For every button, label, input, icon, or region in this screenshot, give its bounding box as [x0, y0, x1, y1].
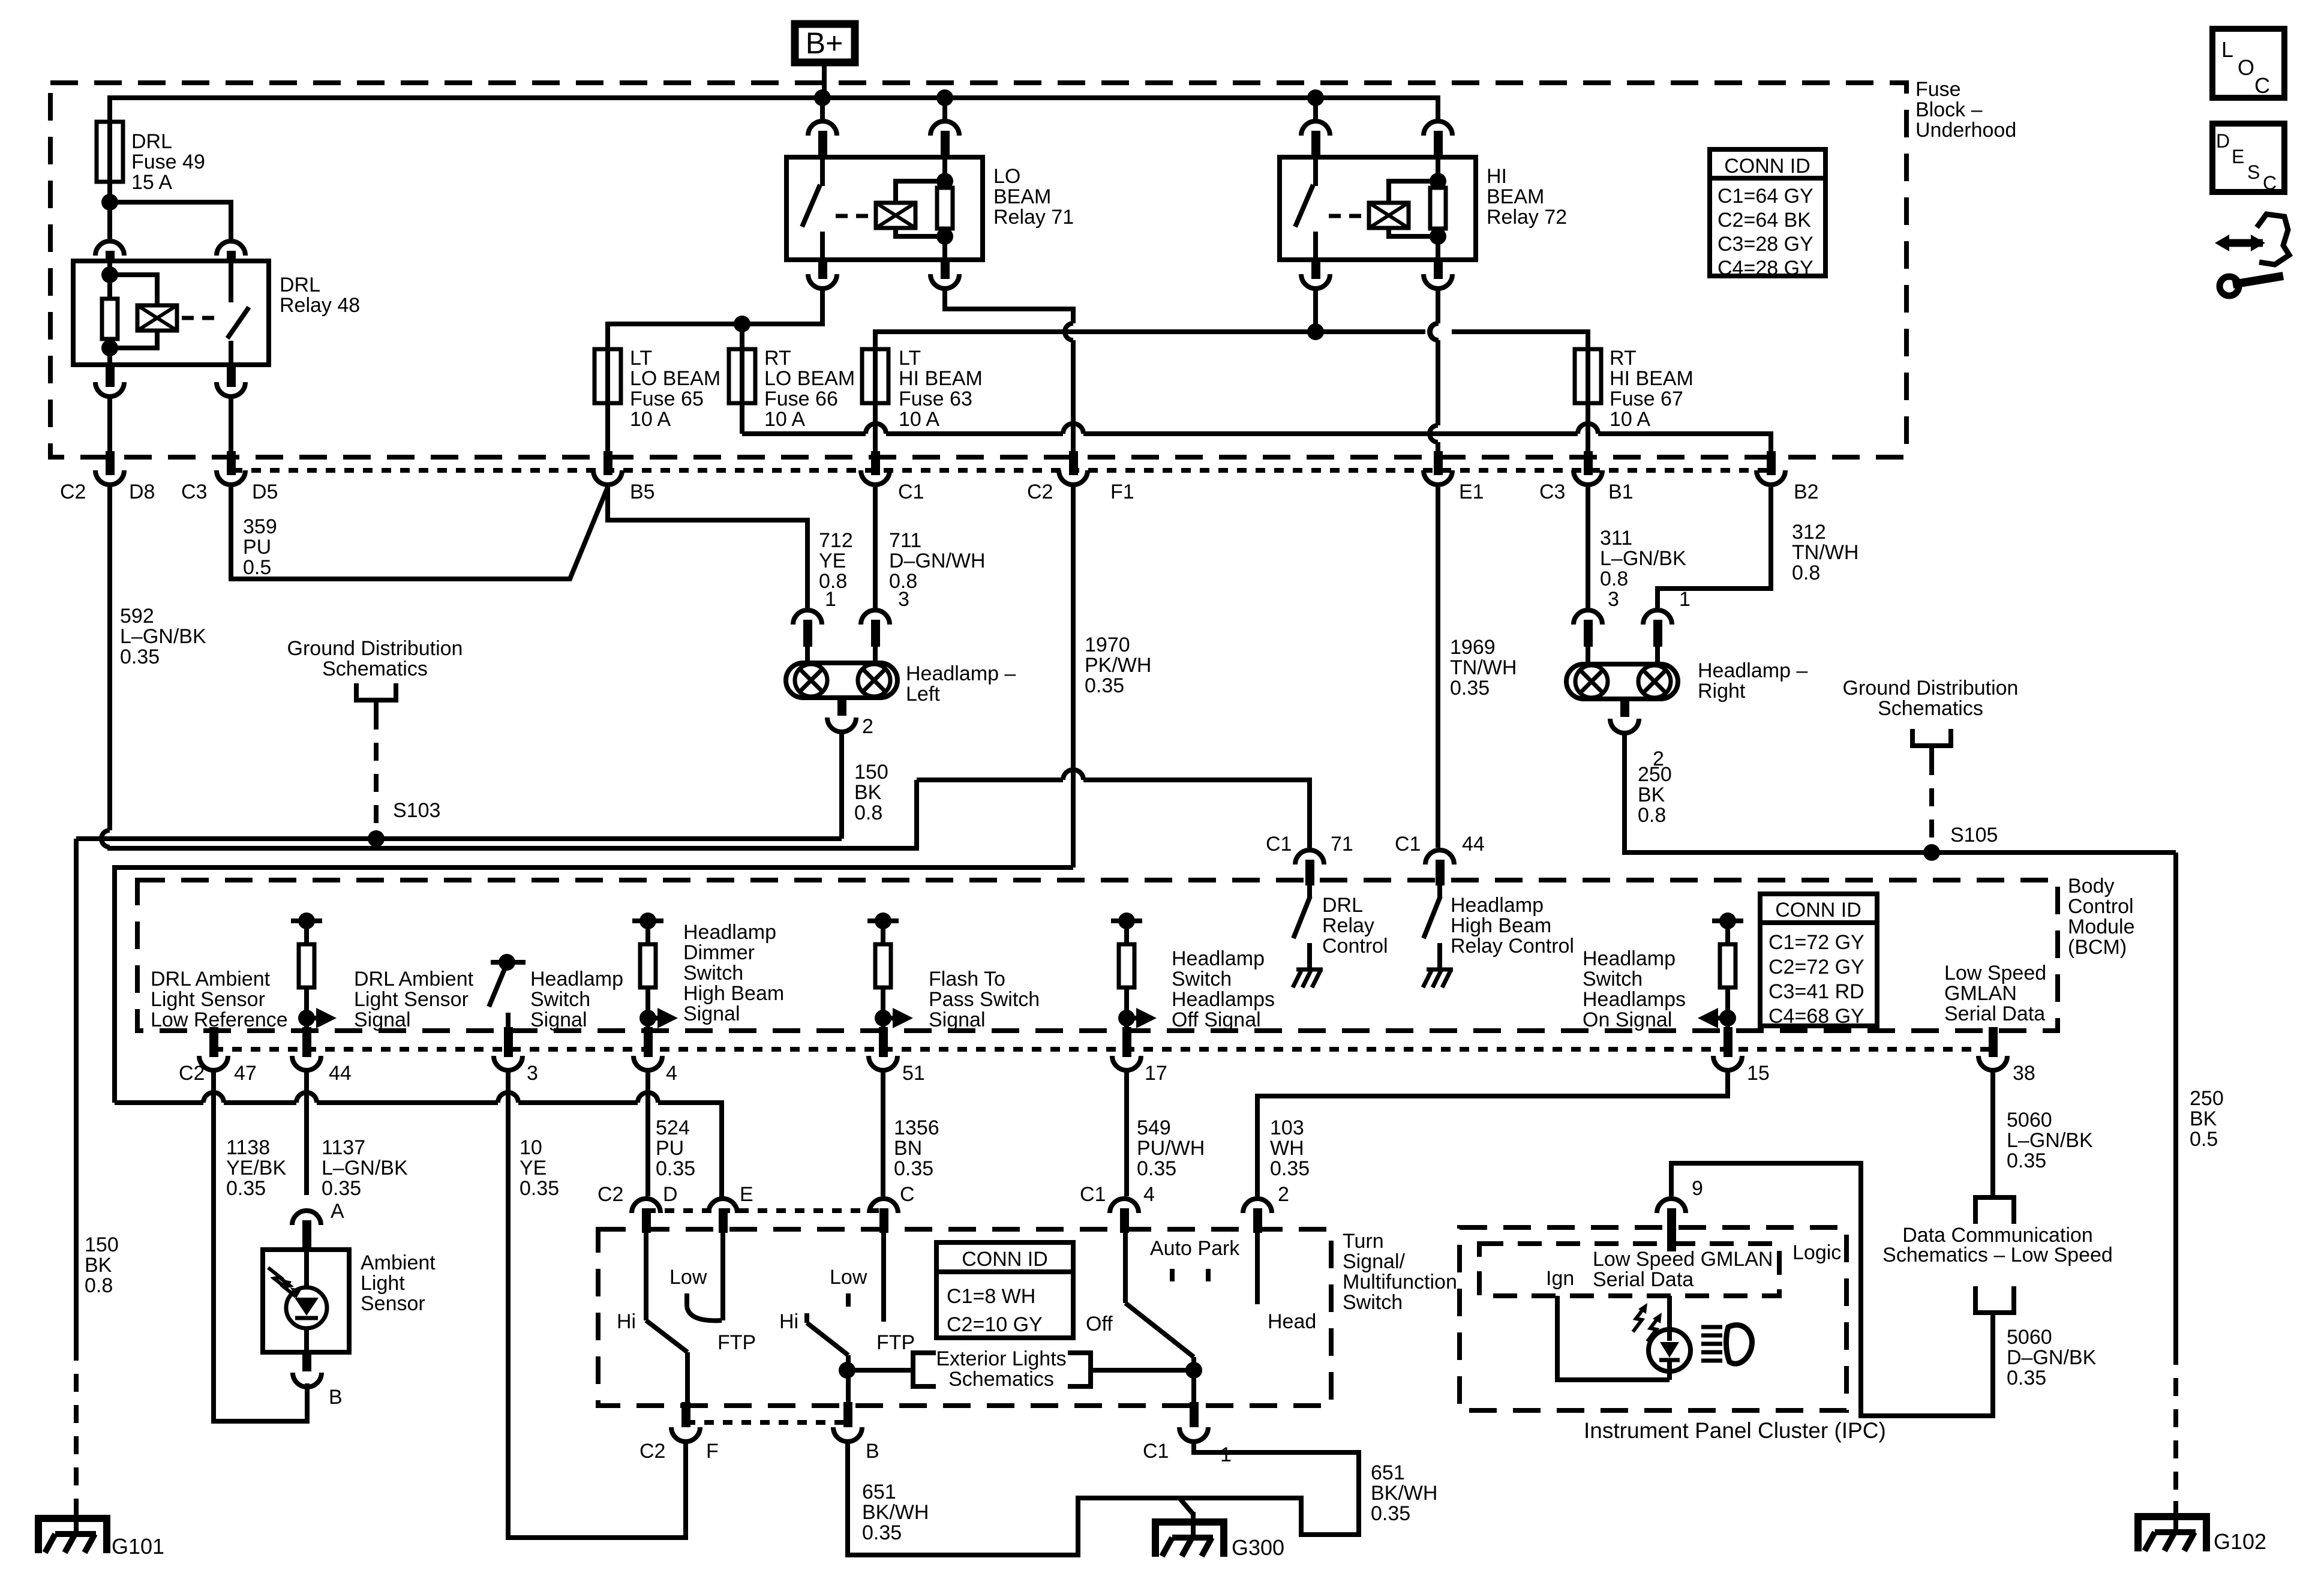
svg-text:DRL: DRL [1322, 894, 1363, 917]
svg-text:Instrument Panel Cluster (IPC): Instrument Panel Cluster (IPC) [1584, 1418, 1886, 1443]
wire fuse63 top to relay72 switch to fuse67 [875, 332, 1425, 349]
svg-text:C2=72 GY: C2=72 GY [1768, 956, 1864, 978]
BCM headlamp switch signal switch pin3 [491, 960, 526, 965]
IPC Ign wire [1557, 1296, 1670, 1380]
svg-text:1138: 1138 [226, 1136, 270, 1159]
svg-text:5060: 5060 [2007, 1109, 2052, 1131]
wire 1138 YE/BK BCM47 to sensor B [214, 1070, 307, 1421]
connector relay48 bottom left [95, 382, 124, 397]
icon component view arrow wrench [2215, 235, 2229, 251]
svg-text:C2: C2 [639, 1440, 665, 1463]
connector relay48 pin top left [95, 241, 124, 256]
svg-text:Relay Control: Relay Control [1451, 935, 1574, 957]
svg-text:D5: D5 [252, 481, 278, 503]
svg-text:Headlamps: Headlamps [1172, 988, 1275, 1011]
svg-text:BK/WH: BK/WH [1371, 1482, 1437, 1505]
svg-text:Headlamp: Headlamp [1451, 894, 1544, 917]
BCM pullup pin15 headlamp switch headlamps on signal [1712, 918, 1743, 923]
BCM dashed box [137, 880, 2058, 1031]
svg-text:CONN ID: CONN ID [1775, 899, 1861, 921]
wire relay71 coil to F1 [945, 292, 1073, 323]
svg-text:Signal: Signal [683, 1002, 740, 1025]
svg-text:HI: HI [1487, 165, 1507, 188]
svg-text:C: C [2254, 73, 2270, 98]
svg-text:GMLAN: GMLAN [1944, 982, 2017, 1005]
BCM DRL relay control switch [1307, 885, 1312, 897]
svg-text:BK/WH: BK/WH [862, 1501, 929, 1524]
svg-text:Serial Data: Serial Data [1944, 1002, 2045, 1025]
svg-text:Light: Light [361, 1272, 405, 1295]
fuse block bottom connector dotted line [233, 468, 1774, 473]
svg-text:524: 524 [656, 1116, 690, 1139]
svg-text:712: 712 [819, 529, 853, 552]
relay72 switch [1313, 157, 1318, 186]
svg-text:Fuse 65: Fuse 65 [630, 388, 704, 410]
svg-text:B: B [866, 1440, 879, 1463]
svg-text:Turn: Turn [1343, 1230, 1384, 1253]
headlamp right [1574, 610, 1602, 625]
svg-text:Hi: Hi [617, 1310, 636, 1333]
wire 150 BK to G101 [74, 839, 79, 1343]
svg-text:17: 17 [1145, 1062, 1167, 1085]
fuse 67 RT HI BEAM [1575, 349, 1601, 403]
svg-text:Logic: Logic [1792, 1241, 1841, 1264]
svg-text:E1: E1 [1459, 481, 1484, 503]
svg-text:YE: YE [819, 550, 846, 572]
svg-text:10: 10 [520, 1136, 542, 1159]
svg-text:592: 592 [120, 605, 154, 628]
wire 1356 BN BCM51 to multifunction C [881, 1070, 885, 1196]
connector relay71 bottom pins [808, 274, 837, 289]
wire 524 PU BCM4 to multifunction D [645, 1070, 650, 1196]
svg-text:0.35: 0.35 [1450, 677, 1490, 700]
headlamp left [793, 610, 822, 625]
wire 549 PU/WH BCM17 to multifunction C1-4 [1124, 1070, 1129, 1196]
svg-text:PU: PU [243, 536, 271, 559]
svg-text:Headlamp: Headlamp [530, 968, 623, 990]
svg-text:312: 312 [1792, 521, 1826, 544]
svg-text:(BCM): (BCM) [2068, 936, 2127, 959]
svg-text:C3=41 RD: C3=41 RD [1768, 980, 1864, 1003]
svg-text:359: 359 [243, 515, 277, 538]
wire fuse63 to C1 [873, 403, 878, 451]
svg-text:S105: S105 [1950, 824, 1998, 846]
svg-text:0.35: 0.35 [1270, 1157, 1310, 1180]
ground G300 [1179, 1498, 1193, 1514]
svg-text:15: 15 [1747, 1062, 1770, 1085]
relay72 resistor [1436, 157, 1440, 188]
wire 250 BK to G102 [2173, 852, 2178, 1347]
wire 1969 TN/WH E1 to BCM 44 [1436, 487, 1440, 848]
svg-text:Low Speed: Low Speed [1944, 962, 2046, 984]
svg-text:2: 2 [1278, 1183, 1289, 1206]
relay48 switch [229, 261, 233, 302]
svg-text:Head: Head [1268, 1310, 1316, 1333]
ground G101 [38, 1518, 107, 1553]
svg-text:CONN ID: CONN ID [1724, 155, 1810, 178]
wire 103 WH BCM15 to multifunction pin2 [1257, 1070, 1728, 1196]
IPC logic inner dashed box [1479, 1244, 1779, 1296]
svg-text:B: B [329, 1386, 343, 1409]
svg-text:BK: BK [2190, 1107, 2217, 1130]
relay71 switch [820, 157, 825, 186]
svg-text:250: 250 [2190, 1087, 2224, 1110]
svg-text:B5: B5 [630, 481, 655, 503]
wire fuse66 top [740, 324, 744, 349]
svg-text:Relay 48: Relay 48 [280, 294, 360, 317]
svg-text:311: 311 [1600, 527, 1632, 550]
svg-text:L–GN/BK: L–GN/BK [120, 625, 206, 648]
svg-text:Switch: Switch [1343, 1291, 1403, 1314]
svg-text:C4=68 GY: C4=68 GY [1768, 1005, 1864, 1028]
svg-text:38: 38 [2013, 1062, 2035, 1085]
svg-text:Ground Distribution: Ground Distribution [287, 637, 463, 660]
svg-text:Fuse 67: Fuse 67 [1610, 388, 1683, 410]
multifunction bottom connectors [686, 1420, 848, 1425]
connector B5 [593, 470, 622, 485]
connector BCM C1-71 [1295, 850, 1324, 864]
wire 1137 L-GN/BK BCM44 to sensor A [304, 1070, 309, 1195]
svg-text:Right: Right [1698, 680, 1746, 703]
svg-text:Headlamp: Headlamp [1583, 947, 1676, 970]
wire relay71 switch to fuses 65 66 [608, 292, 822, 349]
svg-text:Fuse: Fuse [1915, 78, 1961, 101]
svg-text:D8: D8 [129, 481, 155, 503]
relay72 coil [1369, 203, 1409, 228]
CONN ID table fuse block [1710, 149, 1825, 276]
svg-text:Switch: Switch [683, 962, 743, 984]
svg-text:C: C [2263, 172, 2277, 194]
svg-text:C1: C1 [1080, 1183, 1106, 1206]
svg-text:G300: G300 [1232, 1535, 1284, 1560]
svg-text:YE: YE [520, 1157, 547, 1179]
svg-text:Relay 71: Relay 71 [993, 206, 1074, 229]
svg-text:Schematics: Schematics [948, 1368, 1054, 1391]
IPC headlamp beam icon [1701, 1325, 1722, 1329]
svg-text:1969: 1969 [1450, 636, 1496, 659]
svg-text:44: 44 [329, 1062, 352, 1085]
svg-text:PU/WH: PU/WH [1137, 1137, 1205, 1160]
svg-text:C4=28 GY: C4=28 GY [1718, 257, 1813, 280]
wire 150 BK headlamp left to S103 bus [839, 732, 844, 839]
wire 651 BK/WH C1-1 to G300 [1179, 1442, 1359, 1535]
svg-text:Schematics: Schematics [1878, 697, 1983, 720]
ambient light sensor box [263, 1250, 349, 1352]
CONN ID table multifunction [936, 1242, 1073, 1338]
fuse 49 DRL 15A [97, 122, 123, 182]
junction B+ bus [814, 89, 831, 106]
svg-text:Low Reference: Low Reference [151, 1008, 288, 1031]
svg-text:RT: RT [764, 347, 791, 370]
svg-text:C3: C3 [181, 481, 207, 503]
svg-text:651: 651 [1371, 1461, 1405, 1484]
svg-text:S: S [2247, 161, 2260, 183]
IPC dashed box [1460, 1227, 1846, 1410]
svg-text:Headlamp: Headlamp [1172, 947, 1265, 970]
svg-text:Switch: Switch [530, 988, 590, 1011]
svg-text:4: 4 [666, 1062, 677, 1085]
wire 5060 L-GN/BK BCM38 to data comm [1990, 1070, 1995, 1197]
svg-text:0.35: 0.35 [1137, 1157, 1176, 1180]
svg-text:High Beam: High Beam [683, 982, 784, 1005]
sensor light arrows [268, 1268, 286, 1288]
svg-text:0.35: 0.35 [1371, 1502, 1410, 1525]
svg-text:Flash To: Flash To [929, 968, 1005, 990]
svg-text:9: 9 [1692, 1177, 1703, 1200]
fuse 65 LT LO BEAM [594, 349, 621, 403]
svg-text:47: 47 [234, 1062, 257, 1085]
svg-text:WH: WH [1270, 1137, 1304, 1160]
svg-text:C3: C3 [1539, 481, 1565, 503]
svg-text:10 A: 10 A [899, 408, 939, 431]
svg-text:Auto Park: Auto Park [1150, 1237, 1240, 1260]
svg-text:PU: PU [656, 1137, 684, 1160]
svg-text:FTP: FTP [876, 1331, 915, 1354]
svg-text:HI BEAM: HI BEAM [1610, 367, 1694, 390]
svg-text:Headlamps: Headlamps [1583, 988, 1686, 1011]
wire 250 BK headlamp right to S105 [1625, 733, 2176, 852]
svg-text:YE/BK: YE/BK [226, 1157, 286, 1179]
wire fuse49 to relay48 [107, 182, 112, 239]
svg-text:Ambient: Ambient [361, 1251, 436, 1274]
svg-text:10 A: 10 A [630, 408, 671, 431]
svg-text:10 A: 10 A [764, 408, 805, 431]
svg-text:250: 250 [1638, 763, 1672, 786]
wire 712 YE B5 to headlamp left pin1 [608, 487, 807, 608]
connector B2 [1756, 470, 1785, 485]
connector relay71 top pins [808, 121, 837, 136]
svg-text:E: E [2232, 146, 2244, 167]
svg-text:DRL: DRL [280, 274, 320, 296]
svg-text:Hi: Hi [779, 1310, 798, 1333]
BCM bottom connector dotted line [214, 1047, 1995, 1052]
svg-text:BEAM: BEAM [993, 185, 1051, 208]
svg-text:Switch: Switch [1583, 968, 1643, 990]
BCM pullup pin17 headlamp switch headlamps off signal [1111, 918, 1142, 923]
icon DESC box [2212, 124, 2284, 192]
svg-text:C1: C1 [1266, 833, 1292, 855]
BCM pullup pin44 DRL ambient light sensor signal [291, 918, 322, 923]
connector F1 [1059, 470, 1088, 485]
svg-text:51: 51 [902, 1062, 925, 1085]
svg-text:RT: RT [1610, 347, 1637, 370]
svg-text:BN: BN [894, 1137, 922, 1160]
svg-text:Fuse 49: Fuse 49 [131, 151, 205, 173]
svg-text:HI BEAM: HI BEAM [899, 367, 983, 390]
svg-text:L–GN/BK: L–GN/BK [322, 1157, 408, 1179]
svg-text:Relay: Relay [1322, 914, 1374, 937]
svg-text:Schematics – Low Speed: Schematics – Low Speed [1882, 1244, 2113, 1266]
svg-text:0.5: 0.5 [2190, 1128, 2218, 1151]
svg-text:0.35: 0.35 [226, 1177, 266, 1200]
svg-text:TN/WH: TN/WH [1792, 541, 1858, 564]
BCM headlamp high beam relay control switch [1437, 885, 1442, 897]
connector sensor pin B [302, 1352, 311, 1371]
svg-text:Off: Off [1086, 1313, 1113, 1335]
svg-text:C2=64 BK: C2=64 BK [1718, 209, 1811, 232]
svg-text:FTP: FTP [717, 1331, 756, 1354]
svg-text:Signal/: Signal/ [1343, 1250, 1406, 1273]
svg-text:Low: Low [669, 1266, 707, 1289]
svg-text:71: 71 [1331, 833, 1353, 855]
svg-text:1137: 1137 [322, 1136, 365, 1159]
svg-text:Relay 72: Relay 72 [1487, 206, 1567, 229]
connector relay72 bottom pins [1301, 274, 1330, 289]
svg-text:L–GN/BK: L–GN/BK [1600, 547, 1686, 570]
svg-text:BK: BK [1638, 784, 1665, 806]
wire fuse66 to B2 [740, 403, 744, 434]
svg-text:0.35: 0.35 [322, 1177, 361, 1200]
svg-text:Fuse 63: Fuse 63 [899, 388, 972, 410]
svg-text:G102: G102 [2214, 1529, 2266, 1554]
wire B+ feed [822, 62, 827, 98]
svg-text:C2: C2 [597, 1183, 623, 1206]
headlamp right pin2 connector [1620, 699, 1629, 717]
svg-text:0.5: 0.5 [243, 556, 271, 579]
connector E1 [1424, 470, 1452, 485]
svg-text:C1=64 GY: C1=64 GY [1718, 185, 1813, 208]
svg-text:651: 651 [862, 1481, 896, 1503]
fuse block underhood dashed box [50, 83, 1906, 457]
wire fuse67 to B1 [1586, 403, 1590, 451]
svg-text:B1: B1 [1608, 481, 1634, 503]
svg-text:0.35: 0.35 [656, 1157, 695, 1180]
svg-text:Serial Data: Serial Data [1593, 1268, 1694, 1291]
dimmer switch 1 wires [644, 1233, 648, 1320]
relay 48 DRL box [73, 261, 269, 365]
svg-text:S103: S103 [393, 799, 440, 822]
headlamp left pin2 connector [837, 698, 846, 716]
relay72 coil-switch dashed link [1329, 214, 1364, 218]
svg-text:BEAM: BEAM [1487, 185, 1544, 208]
dimmer1 low contact and curl [684, 1293, 689, 1307]
svg-text:Light Sensor: Light Sensor [151, 988, 265, 1011]
wire 592 L-GN/BK D8 to BCM 71 [107, 487, 112, 830]
svg-text:High Beam: High Beam [1451, 914, 1551, 937]
svg-text:Body: Body [2068, 875, 2115, 897]
svg-text:Exterior Lights: Exterior Lights [936, 1347, 1066, 1370]
svg-text:Control: Control [2068, 895, 2134, 918]
svg-text:0.35: 0.35 [2007, 1367, 2046, 1389]
svg-text:C: C [900, 1183, 915, 1206]
svg-text:C2: C2 [179, 1062, 205, 1085]
svg-text:C1=72 GY: C1=72 GY [1768, 931, 1864, 954]
svg-text:Ground Distribution: Ground Distribution [1843, 677, 2019, 700]
data communication schematics reference [1975, 1197, 2014, 1224]
svg-text:1: 1 [1679, 588, 1691, 611]
wire 5060 D-GN/BK data comm to IPC 9 [1671, 1163, 1993, 1416]
svg-text:D: D [2216, 130, 2230, 152]
relay48 coil-switch dashed link [182, 316, 216, 320]
ground G102 [2138, 1517, 2206, 1551]
svg-text:C2: C2 [60, 481, 86, 503]
wire 651 BK/WH B to G300 [848, 1442, 1179, 1555]
relay48 coil [137, 305, 177, 331]
splice S105 [1923, 844, 1940, 861]
svg-text:150: 150 [85, 1233, 119, 1256]
svg-text:Schematics: Schematics [322, 658, 428, 680]
svg-text:0.35: 0.35 [520, 1177, 559, 1200]
svg-text:Low Speed GMLAN: Low Speed GMLAN [1593, 1248, 1773, 1271]
svg-text:B+: B+ [806, 26, 843, 60]
svg-text:0.35: 0.35 [120, 646, 160, 668]
connector D5 [217, 470, 245, 485]
svg-text:0.8: 0.8 [85, 1274, 113, 1297]
svg-text:G101: G101 [112, 1534, 164, 1559]
svg-text:C2=10 GY: C2=10 GY [947, 1313, 1043, 1336]
svg-text:On Signal: On Signal [1583, 1008, 1672, 1031]
svg-text:Block –: Block – [1915, 98, 1983, 121]
svg-text:Left: Left [906, 683, 940, 706]
svg-text:711: 711 [889, 529, 921, 552]
svg-text:Signal: Signal [354, 1008, 411, 1031]
svg-text:Module: Module [2068, 915, 2135, 938]
svg-text:CONN ID: CONN ID [962, 1248, 1048, 1271]
svg-text:C2: C2 [1027, 481, 1053, 503]
turn signal multifunction switch dashed box [598, 1229, 1331, 1406]
relay71 resistor [942, 157, 947, 188]
svg-text:C1: C1 [898, 481, 924, 503]
head contact [1255, 1233, 1260, 1304]
fuse 63 LT HI BEAM [862, 349, 888, 403]
svg-text:A: A [331, 1200, 344, 1223]
svg-text:C1: C1 [1143, 1440, 1169, 1463]
wire 10 YE BCM3 to multifunction F [508, 1070, 686, 1538]
svg-text:Fuse 66: Fuse 66 [764, 388, 838, 410]
svg-text:LT: LT [630, 347, 652, 370]
svg-text:F: F [706, 1440, 719, 1463]
svg-text:C1=8 WH: C1=8 WH [947, 1285, 1035, 1308]
svg-text:Control: Control [1322, 935, 1388, 957]
relay71 coil [876, 203, 915, 228]
svg-text:4: 4 [1143, 1183, 1155, 1206]
svg-text:Switch: Switch [1172, 968, 1232, 990]
wire fuse65 to B5 [605, 403, 610, 451]
svg-text:44: 44 [1462, 833, 1485, 855]
svg-text:D: D [663, 1183, 678, 1206]
svg-text:10 A: 10 A [1610, 408, 1650, 431]
connector relay72 top pins [1301, 121, 1330, 136]
svg-text:D–GN/WH: D–GN/WH [889, 550, 986, 572]
wire 311 L-GN/BK B1 to headlamp right pin3 [1586, 487, 1590, 608]
svg-text:2: 2 [862, 715, 873, 738]
connector relay48 bottom right [217, 382, 245, 397]
svg-text:Headlamp –: Headlamp – [1698, 659, 1807, 682]
svg-text:Underhood: Underhood [1915, 119, 2016, 142]
headlamp off lever [1123, 1233, 1128, 1303]
svg-text:0.35: 0.35 [862, 1521, 902, 1544]
svg-text:Pass Switch: Pass Switch [929, 988, 1040, 1011]
svg-text:Multifunction: Multifunction [1343, 1271, 1457, 1293]
svg-text:D–GN/BK: D–GN/BK [2007, 1346, 2097, 1369]
svg-text:Headlamp –: Headlamp – [906, 662, 1016, 685]
svg-text:DRL Ambient: DRL Ambient [151, 968, 271, 990]
svg-text:Ign: Ign [1546, 1267, 1574, 1290]
svg-text:O: O [2238, 55, 2254, 80]
sensor photodiode [286, 1287, 327, 1328]
wire 359 PU D5 to B5 [231, 487, 608, 579]
BCM pullup pin51 flash to pass switch signal [867, 918, 899, 923]
svg-text:1970: 1970 [1085, 634, 1130, 656]
svg-text:Light Sensor: Light Sensor [354, 988, 469, 1011]
exterior lights schematics reference [847, 1368, 913, 1373]
connector D8 [95, 470, 124, 485]
svg-text:PK/WH: PK/WH [1085, 654, 1151, 677]
svg-text:BK: BK [854, 781, 882, 804]
connector BCM C1-44 [1425, 850, 1454, 864]
svg-text:LT: LT [899, 347, 921, 370]
svg-text:150: 150 [854, 761, 888, 784]
